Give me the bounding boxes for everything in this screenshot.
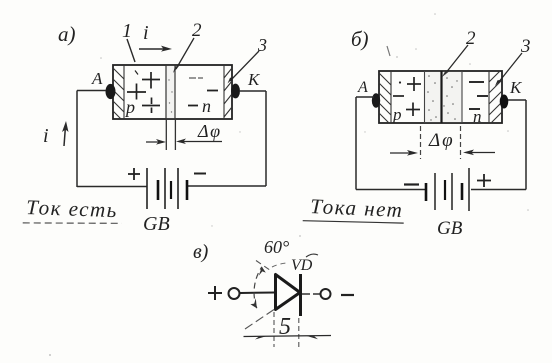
anode contact blob <box>372 93 380 107</box>
left electrode hatch <box>113 65 124 119</box>
node K <box>509 78 523 97</box>
battery GB plus sign <box>128 168 140 180</box>
angle extension line bottom <box>245 310 274 330</box>
cathode wire <box>302 293 320 295</box>
label 2 <box>173 20 202 73</box>
svg-text:A: A <box>91 69 103 88</box>
label delta-phi <box>197 121 222 141</box>
current label i with arrow <box>139 22 172 52</box>
wire cathode to right <box>239 90 266 92</box>
label 2 <box>442 28 476 77</box>
width dimension line <box>244 336 332 337</box>
dimension arrow right of junction <box>176 139 222 145</box>
wire anode to left <box>77 90 106 92</box>
node K (cathode) <box>247 70 261 89</box>
junction potential lines <box>421 126 461 159</box>
battery GB plates <box>147 168 187 209</box>
diode body rectangle <box>379 71 502 123</box>
svg-text:Δφ: Δφ <box>197 121 222 141</box>
label n <box>473 107 482 126</box>
node A (anode) <box>91 69 103 88</box>
wire bottom-right to battery <box>187 185 266 187</box>
svg-text:i: i <box>43 125 49 147</box>
wire anode left <box>356 96 374 98</box>
svg-text:K: K <box>247 70 261 89</box>
VD leader dashes <box>272 263 289 267</box>
plus charges p-region <box>127 71 160 114</box>
plus charges p-region <box>393 77 421 116</box>
angle dimension arc <box>250 267 265 308</box>
size label 5 <box>279 314 291 340</box>
battery GB plates <box>426 168 469 211</box>
svg-text:n: n <box>473 107 482 126</box>
svg-text:а): а) <box>58 22 76 46</box>
label delta-phi <box>428 130 455 151</box>
svg-text:5: 5 <box>279 314 291 340</box>
svg-text:б): б) <box>351 27 369 51</box>
node A <box>357 79 368 96</box>
cathode terminal circle <box>321 289 331 299</box>
svg-text:1: 1 <box>122 20 132 42</box>
label p <box>124 97 135 117</box>
label b) <box>351 27 390 56</box>
svg-text:в): в) <box>193 241 209 263</box>
current arrow i left side <box>43 121 69 147</box>
depletion stipple <box>427 75 457 121</box>
svg-text:i: i <box>143 22 149 44</box>
junction line <box>440 71 442 123</box>
wire left vertical <box>355 97 357 190</box>
battery designator GB <box>143 213 170 235</box>
angle label 60deg <box>264 237 289 257</box>
battery GB plus sign <box>477 174 491 187</box>
svg-text:n: n <box>202 96 211 116</box>
plus terminal sign <box>208 286 222 300</box>
label 3 <box>228 35 268 84</box>
battery GB minus sign <box>194 173 206 175</box>
label v) <box>193 241 209 263</box>
svg-text:p: p <box>124 97 135 117</box>
svg-text:60°: 60° <box>264 237 289 257</box>
wire right vertical <box>265 91 267 186</box>
svg-text:Δφ: Δφ <box>428 130 455 151</box>
label a) <box>58 22 76 46</box>
svg-text:K: K <box>509 78 523 97</box>
junction potential lines <box>166 119 175 150</box>
right electrode hatch <box>489 71 502 123</box>
width dim arrow left <box>255 336 267 340</box>
minus terminal sign <box>341 294 354 296</box>
depletion region boundaries <box>425 71 463 123</box>
svg-text:VD: VD <box>291 257 313 274</box>
width extension lines <box>274 312 299 347</box>
cathode contact blob <box>500 95 509 109</box>
label p <box>392 105 402 124</box>
minus charges n-region <box>469 82 488 109</box>
svg-text:Тока нет: Тока нет <box>310 194 404 222</box>
svg-text:GB: GB <box>437 218 463 239</box>
designator VD <box>291 254 318 274</box>
caption: no current <box>303 194 405 225</box>
wire left vertical <box>76 91 78 188</box>
svg-text:A: A <box>357 79 368 96</box>
width dim arrow right <box>306 336 318 339</box>
wire bottom-left to battery <box>77 186 147 188</box>
left electrode hatch <box>379 71 391 123</box>
diode VD triangle <box>276 275 301 310</box>
diode body rectangle <box>113 65 232 119</box>
caption: current flows <box>23 195 123 226</box>
anode terminal circle <box>229 288 240 299</box>
label 1 <box>122 20 135 62</box>
wire right vertical <box>525 100 527 190</box>
svg-text:p: p <box>392 105 402 124</box>
wire cathode right <box>508 99 526 101</box>
dimension arrow pointing left <box>463 150 495 156</box>
battery GB minus sign <box>404 183 419 185</box>
cathode bar <box>299 274 302 316</box>
svg-text:Ток есть: Ток есть <box>26 195 118 222</box>
cathode contact blob <box>231 84 240 99</box>
label 3 <box>495 36 531 86</box>
dimension arrow left of junction <box>146 139 166 145</box>
label n <box>202 96 211 116</box>
anode wire <box>240 292 275 295</box>
right electrode hatch <box>224 65 232 119</box>
battery designator GB <box>437 218 463 239</box>
minus charges n-region <box>188 78 218 106</box>
anode contact blob <box>106 84 116 99</box>
p-n junction lines <box>166 65 175 119</box>
wire bottom-right to battery <box>471 189 526 191</box>
dimension arrow pointing right <box>390 150 418 156</box>
wire bottom-left to battery <box>356 189 426 191</box>
angle extension line top <box>256 261 272 272</box>
svg-text:GB: GB <box>143 213 170 235</box>
